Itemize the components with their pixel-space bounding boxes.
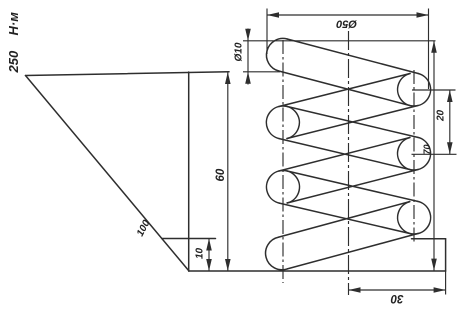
coil cap L2	[266, 106, 299, 139]
svg-text:20: 20	[436, 109, 447, 122]
dim line 60	[227, 72, 229, 271]
coil band L2-R2 lower edge	[279, 139, 410, 170]
arrow 60 bottom	[225, 259, 231, 271]
dim line dia50	[267, 14, 429, 16]
arrow 30 left	[349, 287, 361, 293]
ext line top (dia10 & 70)	[243, 40, 436, 42]
spring axis centerline	[348, 31, 350, 295]
arrow 60 top	[225, 72, 231, 84]
svg-text:10: 10	[195, 247, 206, 259]
svg-text:250: 250	[6, 50, 21, 73]
svg-text:Ø10: Ø10	[234, 42, 245, 61]
svg-text:60: 60	[215, 168, 227, 181]
svg-text:30: 30	[390, 292, 403, 304]
coil band L1-R1 lower edge	[279, 71, 410, 106]
preload level tick on diagonal	[162, 238, 216, 240]
coil band L3-R3 upper edge	[287, 171, 418, 202]
seat / reference line	[189, 270, 446, 272]
arrow 70 top	[431, 41, 437, 53]
svg-text:Н·м: Н·м	[6, 12, 21, 36]
support step shelf	[412, 238, 446, 240]
coil band R3-L4 upper edge	[279, 202, 410, 238]
arrow 20 top	[447, 90, 453, 102]
coil cap R2	[398, 137, 431, 170]
ext line dia50 left	[266, 9, 268, 55]
ext line 20 bottom (R2 center)	[412, 153, 457, 155]
dim line 30	[349, 289, 446, 291]
dim line 20	[449, 90, 451, 154]
ext line 30 right	[445, 271, 447, 295]
arrow 70 bottom	[431, 259, 437, 271]
arrow dia50 right	[417, 12, 429, 18]
arrow 10 bottom	[206, 259, 212, 271]
coil band L2-R2 upper edge	[287, 106, 418, 137]
coil band L1-R1 upper edge	[287, 39, 418, 74]
dim line dia10	[247, 29, 249, 85]
arrow 20 bottom	[447, 142, 453, 154]
svg-text:Ø50: Ø50	[335, 18, 357, 30]
dim line 10 (preload deflection)	[208, 239, 210, 272]
support step vertical	[445, 239, 447, 271]
coil cap L4	[266, 237, 288, 270]
coil cap L3	[266, 171, 299, 204]
arrow 10 top	[206, 239, 212, 251]
coil band R3-L4 lower edge	[287, 233, 418, 269]
dim line 70	[433, 41, 435, 271]
coil cap R3	[398, 201, 431, 234]
coil band R1-L2 upper edge	[279, 74, 410, 107]
load line F=250 (diagram top)	[26, 72, 230, 76]
arrow dia10 bottom (outside)	[245, 72, 251, 84]
ext line dia10 bottom	[243, 71, 280, 73]
coil band R1-L2 lower edge	[287, 106, 418, 139]
arrow dia10 top (outside)	[245, 29, 251, 41]
arrow dia50 left	[267, 12, 279, 18]
coil band R2-L3 upper edge	[279, 138, 410, 172]
arrow 30 right	[434, 287, 446, 293]
coil band R2-L3 lower edge	[287, 170, 418, 204]
spring characteristic diagonal	[26, 76, 190, 272]
ext line dia50 right	[428, 9, 430, 90]
svg-text:70: 70	[422, 144, 432, 154]
centerline right caps	[413, 70, 415, 243]
coil cap R1	[398, 74, 431, 106]
diagram vertical leg	[188, 72, 190, 271]
centerline left caps	[282, 40, 284, 283]
coil cap L1	[266, 38, 287, 71]
ext line 20 top (R1 center)	[412, 89, 456, 91]
coil band L3-R3 lower edge	[279, 203, 410, 234]
